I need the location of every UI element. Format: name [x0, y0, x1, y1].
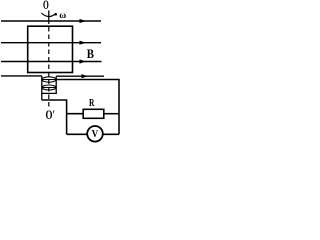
field line B1: [1, 19, 101, 23]
field line B2: [1, 41, 101, 45]
field line B3: [1, 59, 102, 63]
svg-text:V: V: [92, 129, 99, 140]
slip ring 1: [42, 77, 56, 82]
field line B4: [1, 74, 104, 78]
slip ring bracket right side: [55, 76, 57, 93]
svg-text:O′: O′: [46, 107, 56, 122]
resistor R: [83, 109, 104, 118]
wire brush A to right: [56, 80, 119, 135]
svg-text:R: R: [89, 97, 95, 109]
slip ring 2: [42, 85, 56, 90]
wire brush B to junction: [42, 100, 67, 134]
coil loop: [28, 26, 73, 72]
slip ring bracket left side: [41, 76, 43, 100]
wire resistor branch right: [104, 113, 119, 115]
slip ring bracket bottom: [41, 92, 57, 94]
rotation arrow omega arc: [41, 13, 56, 17]
voltmeter V: [87, 126, 103, 142]
svg-text:ω: ω: [59, 11, 66, 21]
wire voltmeter branch left: [67, 133, 88, 135]
wire resistor branch left: [67, 113, 84, 115]
wire voltmeter branch right: [103, 133, 119, 135]
svg-text:O: O: [43, 0, 49, 12]
svg-text:B: B: [87, 46, 94, 61]
rotation axis OO' (dash-dot): [48, 11, 50, 20]
